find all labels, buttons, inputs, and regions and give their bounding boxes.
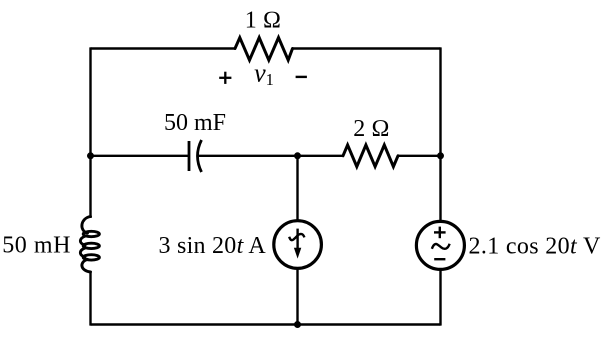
current source I1 AC tilde across shaft (289, 234, 304, 240)
svg-text:v1: v1 (254, 59, 274, 90)
svg-text:2.1 cos 20t V: 2.1 cos 20t V (469, 233, 601, 259)
wire: middle horizontal wire, capacitor to 2-ohm resistor (198, 155, 344, 157)
label: minus sign of v1 (296, 76, 307, 78)
svg-text:2 Ω: 2 Ω (353, 116, 389, 142)
junction node: left of middle wire (87, 152, 94, 159)
wire: bottom rail (91, 323, 441, 325)
svg-text:1 Ω: 1 Ω (245, 8, 281, 34)
wire: middle horizontal wire, left of capacitor (91, 155, 190, 157)
wire: center branch lower (current source to bottom rail) (296, 268, 298, 325)
svg-text:50 mH: 50 mH (2, 233, 71, 259)
junction node: bottom rail at center branch (294, 321, 301, 328)
junction node: right of middle wire (437, 152, 444, 159)
wire: top rail left segment (91, 47, 236, 49)
resistor R1 (1 ohm) zigzag on top rail (235, 38, 293, 61)
wire: middle horizontal wire, right of 2-ohm resistor (398, 155, 441, 157)
wire: top rail right segment (293, 47, 441, 49)
wire: center branch upper (middle wire down to current source) (296, 156, 298, 221)
svg-text:3 sin 20t A: 3 sin 20t A (159, 233, 267, 259)
voltage source V1 minus sign (434, 258, 445, 260)
label: plus sign of v1 (219, 72, 231, 84)
voltage source V1 plus sign (434, 227, 446, 239)
current source I1 circle (274, 221, 322, 269)
voltage source V1 circle (416, 221, 464, 269)
current source I1 arrowhead (294, 248, 301, 259)
capacitor C1 (50 mF) right curved plate (198, 140, 202, 172)
current source I1 arrow shaft (296, 229, 298, 251)
resistor R2 (2 ohm) zigzag on middle wire (343, 145, 398, 167)
wire: left rail lower (inductor to bottom corner) (89, 271, 91, 326)
voltage source V1 AC tilde (432, 244, 450, 249)
junction node: middle wire at center branch (294, 152, 301, 159)
svg-text:50 mF: 50 mF (164, 110, 226, 136)
inductor L1 (50 mH) coil on left rail (80, 217, 99, 273)
wire: right rail upper (top corner down to voltage source) (439, 47, 441, 222)
wire: right rail lower (voltage source to bottom corner) (439, 269, 441, 325)
capacitor C1 (50 mF) left plate (188, 141, 191, 171)
wire: left rail upper (top corner down to inductor) (89, 47, 91, 218)
